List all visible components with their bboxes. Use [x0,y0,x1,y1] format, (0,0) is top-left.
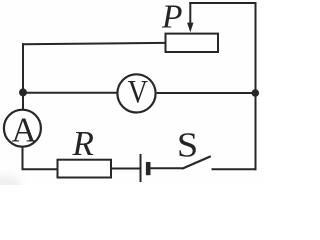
wire top-left horizontal [22,43,166,44]
svg-text:A: A [12,111,37,149]
voltmeter label V [128,74,148,110]
potentiometer P body [166,34,219,52]
node junction right [252,89,260,97]
switch S blade [182,156,211,169]
battery short plate [146,162,151,175]
wire junction to voltmeter [23,92,117,94]
wire top-right horizontal [189,2,256,4]
resistor label R [72,124,94,163]
wire ammeter to bottom [22,147,24,169]
voltmeter U-V circle [117,74,155,112]
resistor R body [58,160,112,178]
potentiometer wiper arrow head [187,23,193,33]
wire left vertical [22,43,24,109]
svg-text:P: P [161,0,182,35]
wire right vertical rail [255,2,257,170]
switch label S [177,126,198,164]
scan shading bottom-left [0,175,22,197]
potentiometer label P [161,0,182,35]
ammeter label A [12,111,37,149]
wire battery to switch [148,167,183,169]
wire switch contact to right corner [212,168,257,170]
wire bottom-left horizontal [22,168,58,170]
svg-text:R: R [72,124,94,163]
potentiometer wiper arrow shaft [189,2,191,25]
svg-text:S: S [177,126,198,164]
node junction left [19,88,27,96]
battery long plate [140,154,142,182]
wire resistor to battery [111,168,141,170]
wire voltmeter to right rail [157,92,256,94]
svg-text:V: V [128,74,148,110]
ammeter U-A circle [4,110,41,147]
